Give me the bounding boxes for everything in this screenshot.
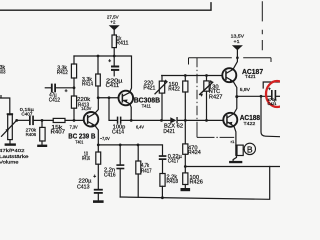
svg-text:T411: T411 <box>142 104 152 110</box>
svg-text:14,0V: 14,0V <box>81 106 92 112</box>
svg-text:C411: C411 <box>106 83 120 89</box>
svg-text:BC308B: BC308B <box>134 96 161 105</box>
svg-text:C417: C417 <box>168 159 179 165</box>
svg-text:Volume: Volume <box>0 159 19 165</box>
svg-text:R427: R427 <box>209 95 223 101</box>
svg-text:B: B <box>247 144 253 154</box>
svg-text:+2: +2 <box>110 19 115 24</box>
svg-text:+: + <box>268 87 271 92</box>
svg-text:+: + <box>93 174 96 180</box>
svg-text:R407: R407 <box>51 130 66 136</box>
svg-text:R411: R411 <box>116 41 128 47</box>
svg-text:R414: R414 <box>82 81 93 87</box>
svg-text:r1: r1 <box>231 140 235 144</box>
svg-text:R403: R403 <box>0 70 6 76</box>
svg-text:47k/P402: 47k/P402 <box>0 148 25 154</box>
svg-text:T422: T422 <box>244 121 256 127</box>
svg-text:13,5V: 13,5V <box>231 34 246 39</box>
svg-text:6,4V: 6,4V <box>136 124 144 129</box>
svg-text:D421: D421 <box>163 129 175 135</box>
svg-text:C416: C416 <box>104 172 116 178</box>
svg-text:C413: C413 <box>77 184 90 190</box>
svg-text:P421: P421 <box>143 86 155 92</box>
svg-text:R412: R412 <box>57 70 68 76</box>
svg-text:+: + <box>65 88 68 94</box>
svg-text:C421: C421 <box>268 102 277 106</box>
svg-text:R417: R417 <box>141 168 152 174</box>
svg-text:BC 239 B: BC 239 B <box>68 131 96 140</box>
svg-text:Lautstärke: Lautstärke <box>0 154 29 160</box>
svg-text:AC188: AC188 <box>240 113 260 122</box>
svg-text:C407: C407 <box>21 112 32 118</box>
svg-text:+1: +1 <box>234 39 240 44</box>
svg-text:R424: R424 <box>188 150 201 156</box>
svg-text:C414: C414 <box>112 129 124 135</box>
svg-text:R426: R426 <box>190 180 203 186</box>
svg-text:C412: C412 <box>49 97 60 103</box>
svg-text:T401: T401 <box>75 139 83 145</box>
svg-text:R422: R422 <box>168 87 180 93</box>
svg-text:R416: R416 <box>82 156 90 162</box>
svg-text:R406: R406 <box>26 132 37 138</box>
svg-text:5,9V: 5,9V <box>240 87 250 92</box>
svg-text:~7,0V: ~7,0V <box>100 136 110 141</box>
svg-text:T421: T421 <box>245 74 256 80</box>
svg-text:7,3V: 7,3V <box>70 124 78 129</box>
svg-text:+: + <box>108 59 111 65</box>
svg-text:R418: R418 <box>167 179 179 185</box>
